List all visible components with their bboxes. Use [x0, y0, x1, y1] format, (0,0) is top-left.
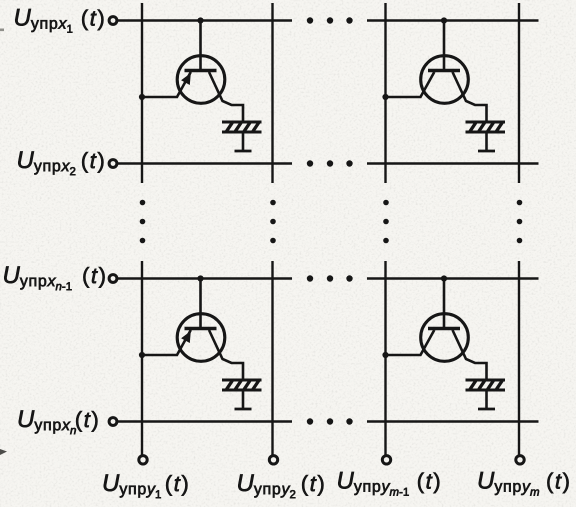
wire: row xn-1 line right segment: [367, 277, 539, 279]
wire: column y2 line lower segment: [271, 261, 273, 455]
terminal: input U upr xn-1: [109, 275, 117, 283]
label: U uprx2(t): [18, 152, 103, 176]
wire: transistor VT2 collector to capacitor: [453, 72, 487, 122]
transistor VT1: [177, 56, 225, 104]
ground of VT4: [478, 408, 495, 411]
label: U uprxn(t): [19, 411, 98, 435]
wire: capacitor of VT1 to ground: [242, 132, 245, 151]
junction: VT1 emitter feed on column line: [139, 94, 145, 100]
ellipsis dots on row xn: [307, 418, 353, 424]
wire: column to transistor VT4 emitter: [386, 330, 435, 355]
transistor VT2: [421, 56, 469, 104]
label: U uprx1(t): [15, 9, 103, 33]
ellipsis dots on column y1: [140, 200, 146, 244]
wire: row xn-1 line left segment: [118, 277, 293, 279]
junction: VT3 emitter feed on column line: [139, 352, 145, 358]
label: U upry1(t): [104, 475, 188, 499]
ground of VT1: [235, 150, 252, 153]
wire: column y2 line upper segment: [271, 3, 273, 183]
wire: column to transistor VT3 emitter: [142, 330, 191, 355]
transistor VT3: [177, 314, 225, 362]
wire: capacitor of VT4 to ground: [485, 390, 488, 409]
wire: column ym line lower segment: [518, 261, 520, 455]
wire: transistor VT2 base lead to row line: [443, 21, 446, 72]
capacitor (hatched element) of VT4: [466, 380, 506, 390]
wire: transistor VT3 collector to capacitor: [209, 330, 243, 380]
wire: capacitor of VT3 to ground: [242, 390, 245, 409]
wire: row xn line right segment: [367, 420, 539, 422]
terminal: output U upr y1: [139, 456, 147, 464]
label: U uprym(t): [479, 472, 569, 496]
junction: VT4 lead on row line: [441, 275, 447, 281]
terminal: output U upr y2: [269, 456, 277, 464]
junction: VT2 lead on row line: [441, 17, 447, 23]
wire: row x1 line right segment: [367, 19, 539, 21]
terminal: output U upr ym-1: [382, 456, 390, 464]
ellipsis dots on row x1: [307, 17, 353, 23]
terminal: input U upr x2: [109, 160, 117, 168]
scan mark left edge upper: [0, 29, 4, 32]
ellipsis dots on column ym: [517, 200, 523, 244]
wire: column y1 line upper segment: [141, 3, 143, 183]
wire: column to transistor VT1 emitter: [142, 72, 191, 97]
junction: VT4 emitter feed on column line: [382, 352, 388, 358]
terminal: output U upr ym: [516, 456, 524, 464]
wire: transistor VT4 base lead to row line: [443, 279, 446, 330]
wire: row x1 line left segment: [118, 19, 293, 21]
ellipsis dots on column y2: [270, 200, 276, 244]
wire: transistor VT1 collector to capacitor: [209, 72, 243, 122]
ellipsis dots on row x2: [307, 160, 353, 166]
wire: transistor VT1 base lead to row line: [199, 21, 202, 72]
transistor VT4: [421, 314, 469, 362]
wire: row x2 line right segment: [367, 162, 539, 164]
ground of VT3: [235, 408, 252, 411]
ellipsis dots on column ym-1: [383, 200, 389, 244]
label: U uprym-1(t): [338, 472, 439, 496]
terminal: input U upr xn: [109, 418, 117, 426]
junction: VT2 emitter feed on column line: [382, 94, 388, 100]
capacitor (hatched element) of VT1: [222, 122, 262, 132]
junction: VT3 lead on row line: [197, 275, 203, 281]
ellipsis dots on row xn-1: [307, 275, 353, 281]
label: U uprxn-1(t): [4, 267, 104, 291]
terminal: input U upr x1: [109, 17, 117, 25]
wire: transistor VT3 base lead to row line: [199, 279, 202, 330]
wire: column ym-1 line lower segment: [384, 261, 386, 455]
wire: column y1 line lower segment: [141, 261, 143, 455]
label: U upry2(t): [238, 475, 323, 499]
wire: column ym line upper segment: [518, 3, 520, 183]
wire: row xn line left segment: [118, 420, 293, 422]
scan mark left edge lower: [0, 449, 7, 455]
capacitor (hatched element) of VT2: [466, 122, 506, 132]
wire: column ym-1 line upper segment: [384, 3, 386, 183]
wire: transistor VT4 collector to capacitor: [453, 330, 487, 380]
wire: row x2 line left segment: [118, 162, 293, 164]
wire: capacitor of VT2 to ground: [485, 132, 488, 151]
ground of VT2: [478, 150, 495, 153]
capacitor (hatched element) of VT3: [222, 380, 262, 390]
wire: column to transistor VT2 emitter: [386, 72, 435, 97]
junction: VT1 lead on row line: [197, 17, 203, 23]
